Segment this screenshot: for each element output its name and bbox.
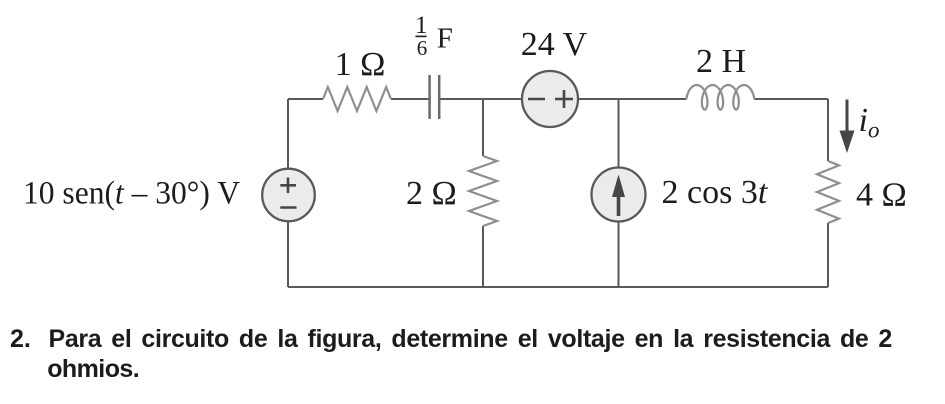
wire: current source to bottom rail: [618, 221, 620, 287]
value label 1/6 F: [415, 12, 453, 60]
plus sign of V1: [280, 178, 296, 194]
wire: 24V source to inductor: [578, 98, 687, 100]
svg-text:10 sen(t – 30°) V: 10 sen(t – 30°) V: [23, 176, 240, 212]
wire: right branch upper: [827, 99, 829, 161]
current source I1 2 cos 3t (circle): [592, 168, 646, 222]
svg-text:1 Ω: 1 Ω: [335, 46, 386, 83]
svg-text:2 H: 2 H: [696, 43, 746, 80]
wire: left branch lower: [287, 221, 289, 287]
wire: inductor to right corner: [754, 98, 828, 100]
svg-text:io: io: [859, 102, 880, 143]
current arrow i_o: [846, 100, 849, 136]
minus sign of V1: [280, 206, 296, 209]
voltage source V1 10 sen(t-30) (circle): [262, 169, 315, 222]
svg-text:2 Ω: 2 Ω: [406, 175, 457, 212]
arrow of current source I1: [617, 196, 621, 216]
voltage source V2 24V (circle): [522, 71, 578, 127]
resistor R2 2 ohm (vertical zigzag): [469, 156, 497, 226]
wire: capacitor to 24V source (through node A): [439, 98, 522, 100]
svg-text:F: F: [437, 23, 453, 55]
plus sign of V2: [555, 90, 573, 108]
resistor R3 4 ohm (vertical zigzag): [817, 161, 839, 223]
svg-text:4 Ω: 4 Ω: [856, 177, 907, 214]
wire: resistor R1 to capacitor: [391, 98, 429, 100]
wire: bottom rail: [288, 286, 828, 288]
svg-text:24 V: 24 V: [521, 26, 588, 63]
problem statement text: [10, 325, 31, 354]
wire: top rail left segment: [288, 98, 323, 100]
resistor R1 1 ohm (horizontal zigzag): [323, 87, 391, 111]
wire: right branch lower: [827, 223, 829, 287]
inductor L1 2H: [686, 85, 754, 110]
wire: node A branch down to 2-ohm resistor: [482, 99, 484, 156]
minus sign of V2: [528, 98, 545, 101]
capacitor C1 1/6 F plates: [430, 75, 440, 119]
svg-text:6: 6: [417, 36, 428, 60]
wire: left branch upper (source to top rail): [287, 99, 289, 169]
wire: node B branch down to current source: [618, 99, 620, 168]
svg-text:2 cos 3t: 2 cos 3t: [662, 174, 769, 211]
wire: 2-ohm resistor to bottom rail: [482, 226, 484, 287]
